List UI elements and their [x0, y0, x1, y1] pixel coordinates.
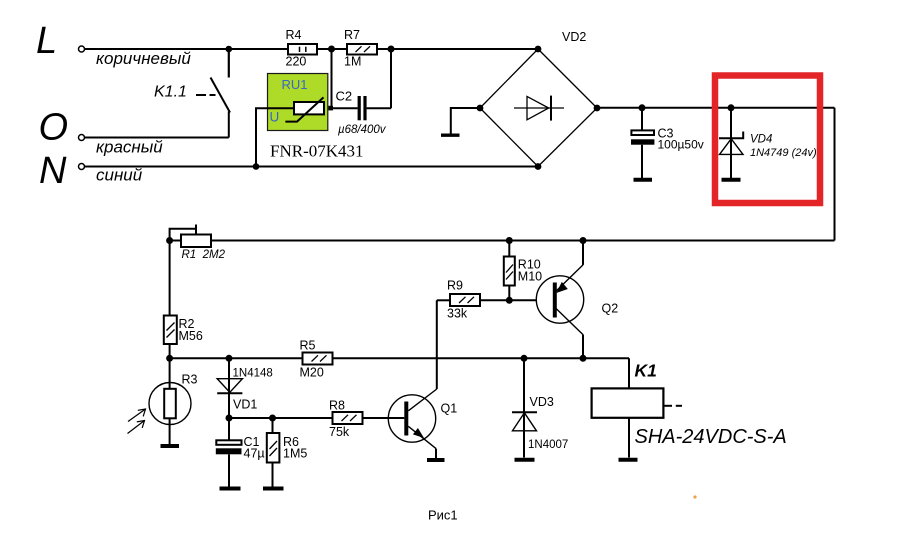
junction R7-C2 node	[388, 46, 395, 53]
wire O (красный)	[85, 137, 229, 139]
svg-text:U: U	[270, 110, 280, 125]
wire bridge output rail	[597, 107, 835, 109]
svg-text:M20: M20	[300, 366, 324, 380]
label VD2	[562, 30, 586, 44]
svg-text:µ68/400v: µ68/400v	[338, 124, 387, 136]
wire mid rail right	[333, 357, 630, 359]
stray mark	[693, 495, 696, 498]
svg-text:N: N	[39, 150, 67, 192]
ground below C1	[220, 487, 241, 491]
diode VD1	[217, 358, 273, 418]
relay linkage dashes	[665, 405, 683, 407]
diode VD3	[512, 358, 568, 457]
wire mid rail	[170, 357, 303, 359]
ground below Q1	[427, 458, 445, 462]
wire Q1 emitter to ground	[435, 449, 437, 458]
wire N (синий)	[85, 166, 539, 168]
svg-text:SHA-24VDC-S-A: SHA-24VDC-S-A	[635, 426, 787, 448]
svg-text:R3: R3	[182, 373, 198, 387]
ground below VD4	[722, 178, 741, 182]
label коричневый	[96, 49, 191, 68]
ground below VD3	[515, 458, 535, 462]
svg-text:1N4148: 1N4148	[233, 368, 273, 380]
label K1.1	[154, 84, 187, 101]
switch K1.1 linkage dashes	[196, 94, 216, 96]
wire relay to ground	[628, 418, 630, 458]
transistor Q1	[363, 389, 458, 449]
wire varistor to C2	[333, 107, 358, 109]
wire R2 to R3	[169, 344, 171, 389]
junction R4-R7 node	[328, 46, 335, 53]
wire down from R7 node to C2	[390, 49, 392, 108]
wire varistor branch	[256, 108, 294, 166]
wire to R9	[437, 299, 450, 301]
svg-text:M10: M10	[518, 270, 542, 284]
varistor RU1 body	[285, 97, 324, 121]
svg-text:красный: красный	[96, 138, 163, 157]
resistor R4	[286, 28, 318, 69]
junction VD1 top	[226, 355, 233, 362]
ground below C3	[634, 178, 653, 182]
wire to relay	[628, 358, 630, 388]
svg-text:1M5: 1M5	[283, 447, 307, 461]
svg-text:VD4: VD4	[750, 134, 772, 146]
relay K1 coil	[592, 361, 664, 418]
junction Q2-relay	[580, 355, 587, 362]
bridge inner diode	[514, 96, 564, 121]
terminal L	[79, 46, 85, 52]
resistor R10	[504, 241, 542, 301]
svg-text:O: O	[39, 107, 69, 149]
svg-text:1N4007: 1N4007	[528, 439, 568, 451]
junction rail R10	[506, 237, 513, 244]
wire down to varistor node	[331, 49, 333, 108]
wire switch riser	[228, 112, 230, 138]
svg-text:K1: K1	[635, 361, 657, 381]
resistor R5	[300, 339, 333, 380]
svg-text:L: L	[36, 20, 57, 62]
wire R7 to bridge	[377, 48, 538, 50]
svg-text:Q1: Q1	[441, 402, 458, 416]
label FNR-07K431	[270, 142, 364, 161]
svg-text:33k: 33k	[447, 307, 468, 321]
node L	[36, 20, 57, 62]
svg-text:VD3: VD3	[530, 395, 554, 409]
wire right edge drop	[834, 108, 836, 241]
svg-text:VD2: VD2	[562, 30, 586, 44]
wire R8 to Q1 base	[363, 417, 405, 419]
resistor R9	[447, 279, 480, 321]
junction L-switch	[226, 46, 233, 53]
svg-text:1M: 1M	[344, 55, 361, 69]
terminal N	[79, 164, 85, 170]
svg-text:VD1: VD1	[233, 398, 257, 412]
svg-text:1N4749 (24v): 1N4749 (24v)	[750, 147, 817, 159]
svg-text:C2: C2	[336, 89, 353, 104]
svg-text:47µ: 47µ	[244, 447, 265, 461]
junction N-varistor	[253, 163, 260, 170]
svg-text:FNR-07K431: FNR-07K431	[270, 142, 364, 161]
terminal O	[79, 135, 85, 141]
ground below R6	[263, 487, 284, 491]
wire R4 to R7	[317, 48, 347, 50]
svg-text:Q2: Q2	[602, 302, 619, 316]
zener diode VD4	[719, 108, 817, 178]
node O	[39, 107, 69, 149]
resistor R7	[344, 28, 377, 69]
wire left column	[169, 241, 171, 316]
svg-text:R4: R4	[286, 28, 302, 42]
transistor Q2	[536, 265, 618, 335]
wire base line	[229, 417, 333, 419]
svg-text:R5: R5	[300, 339, 316, 353]
junction VD1 bottom	[226, 415, 233, 422]
svg-text:синий: синий	[96, 166, 143, 185]
photoresistor R3	[149, 373, 198, 445]
wire lower rail	[211, 240, 835, 242]
wire L line left segment	[85, 48, 289, 50]
junction mid rail left	[166, 355, 173, 362]
resistor R2	[164, 316, 203, 345]
svg-text:R9: R9	[447, 279, 463, 293]
svg-text:коричневый: коричневый	[96, 49, 191, 68]
bridge corner junctions	[477, 46, 601, 170]
junction VD4 node	[728, 104, 735, 111]
node N	[39, 150, 67, 192]
capacitor C3	[631, 108, 704, 178]
svg-text:RU1: RU1	[282, 77, 308, 92]
ground below R3	[161, 444, 180, 448]
svg-text:Рис1: Рис1	[428, 508, 458, 523]
wire C2 to R7 node	[367, 107, 391, 109]
capacitor C1	[216, 418, 265, 487]
switch K1.1 blade	[211, 78, 231, 113]
ground below relay	[619, 458, 638, 462]
wire Q1 collector riser	[436, 300, 438, 389]
svg-text:M56: M56	[179, 329, 203, 343]
ground at bridge left	[441, 108, 480, 135]
light arrows R3	[128, 409, 146, 434]
svg-text:K1.1: K1.1	[154, 84, 187, 101]
junction R6 top	[269, 415, 276, 422]
svg-text:100µ50v: 100µ50v	[658, 138, 704, 152]
junction VD3 top	[521, 355, 528, 362]
junction square varistor output	[328, 106, 333, 111]
wire R9 to Q2 base node	[480, 299, 551, 301]
label синий	[96, 166, 143, 185]
resistor R8	[329, 399, 363, 439]
caption Рис1	[428, 508, 458, 523]
svg-text:75k: 75k	[329, 425, 350, 439]
label красный	[96, 138, 163, 157]
bridge rectifier VD2 diamond	[480, 49, 597, 167]
junction R9-R10-base	[506, 297, 513, 304]
svg-text:R7: R7	[344, 28, 360, 42]
varistor RU1 green box	[268, 74, 328, 131]
svg-text:R8: R8	[329, 399, 345, 413]
wire Q2 collector drop	[582, 335, 584, 359]
junction rail left	[166, 237, 173, 244]
switch K1.1 fixed contact	[228, 49, 230, 78]
svg-text:R1 2M2: R1 2M2	[182, 249, 226, 261]
trimmer resistor R1	[170, 225, 226, 262]
junction rail Q2	[580, 237, 587, 244]
resistor R6	[267, 418, 308, 487]
junction C3 node	[639, 104, 646, 111]
svg-text:220: 220	[286, 55, 307, 69]
label SHA-24VDC-S-A	[635, 426, 787, 448]
red highlight box	[715, 76, 820, 204]
capacitor C2	[336, 89, 387, 137]
wire Q2 emitter riser	[582, 241, 584, 265]
